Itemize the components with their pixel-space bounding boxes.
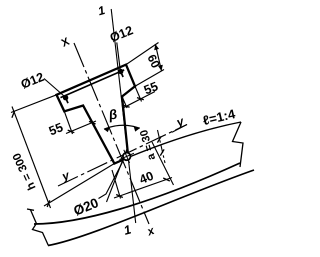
svg-text:55: 55 xyxy=(142,79,160,97)
svg-text:a = 30: a = 30 xyxy=(138,128,158,161)
svg-text:Ø12: Ø12 xyxy=(19,70,46,92)
svg-text:X: X xyxy=(60,36,72,50)
svg-text:y: y xyxy=(59,168,72,184)
svg-text:1: 1 xyxy=(122,222,132,237)
svg-text:1: 1 xyxy=(96,3,106,18)
svg-text:h = 300: h = 300 xyxy=(11,151,38,192)
svg-text:55: 55 xyxy=(47,120,65,138)
svg-text:β: β xyxy=(106,106,118,122)
svg-text:ℓ=1:4: ℓ=1:4 xyxy=(201,106,237,128)
svg-text:x: x xyxy=(145,225,157,239)
svg-text:Ø12: Ø12 xyxy=(108,23,135,45)
svg-text:y: y xyxy=(174,114,187,130)
